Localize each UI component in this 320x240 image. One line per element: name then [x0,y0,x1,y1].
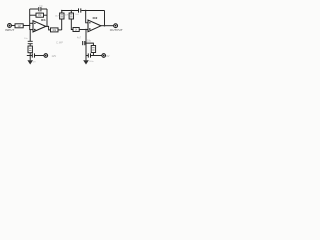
wire R4 top to rail [61,11,63,14]
wire R1 to input node [23,25,30,27]
capacitor C2 [78,8,80,12]
wire R5 bottom to R6 [71,19,73,30]
node C5/R8 tap [85,43,86,44]
ground G2 [85,56,87,61]
wire IC2 output [101,25,114,27]
wire input column [29,9,31,30]
op-amp IC1 [33,21,46,32]
resistor R5 [69,13,73,19]
node rail tap [85,10,86,11]
svg-text:1M: 1M [38,15,41,17]
wire IC1 output [46,26,51,30]
resistor R7 [28,46,32,53]
capacitor C3 [28,40,33,42]
svg-text:INPUT: INPUT [5,28,14,32]
wire R6 to IC2 non-inverting [79,29,88,31]
svg-text:4u7: 4u7 [77,37,82,40]
wire IC1 bias column [29,30,32,41]
svg-text:10u: 10u [87,39,92,42]
node output IC2 [104,25,106,27]
wire feedback top branch [30,8,39,10]
node rail R5 [71,10,73,12]
resistor R4 [60,13,64,19]
wire J1 to R1 [11,25,15,27]
svg-text:9V: 9V [106,54,109,58]
wire feedback right vertical [46,9,48,27]
capacitor C1 [38,7,40,11]
capacitor C6 [87,53,89,57]
output jack J2 [114,24,118,28]
input jack J1 [8,24,12,28]
svg-text:12V: 12V [52,54,57,58]
terminal J3 [44,54,48,58]
wire ground rail right [86,55,88,57]
wire IC1 inverting stub [30,22,33,24]
svg-text:IC1: IC1 [41,18,46,22]
svg-text:IC2: IC2 [93,16,98,20]
svg-text:1M: 1M [17,26,20,28]
svg-text:C.MP: C.MP [56,41,63,45]
wire IC2 bias column [85,30,87,56]
wire R3 to R4 column [58,29,62,31]
capacitor C4 [31,53,33,57]
resistor R1 [15,24,23,28]
resistor R6 [73,28,79,32]
wire feedback middle branch [30,14,36,16]
svg-text:OUTPUT: OUTPUT [110,28,123,32]
wire R7 bottom to ground rail [29,53,31,56]
resistor R3 [51,28,59,32]
node input junction [29,25,30,26]
wire feedback vertical from rail to output [104,11,106,26]
wire to R8 top [86,43,93,45]
wire IC1 non-inverting stub [30,29,33,31]
resistor R2 [36,13,44,17]
node rail R4 [61,10,63,12]
wire ground rail left [27,55,33,57]
wire top rail [62,10,78,12]
ground G1 [29,56,31,61]
terminal J4 [102,54,106,58]
wire R8 bottom [92,53,94,56]
capacitor C5 [82,41,84,45]
node output IC1 / feedback join [46,26,47,27]
op-amp IC2 [88,20,101,32]
resistor R8 [91,46,95,53]
node IC2 bias [85,29,86,30]
svg-text:100n: 100n [89,61,95,63]
wire rail tap to IC2 inverting [86,11,88,23]
